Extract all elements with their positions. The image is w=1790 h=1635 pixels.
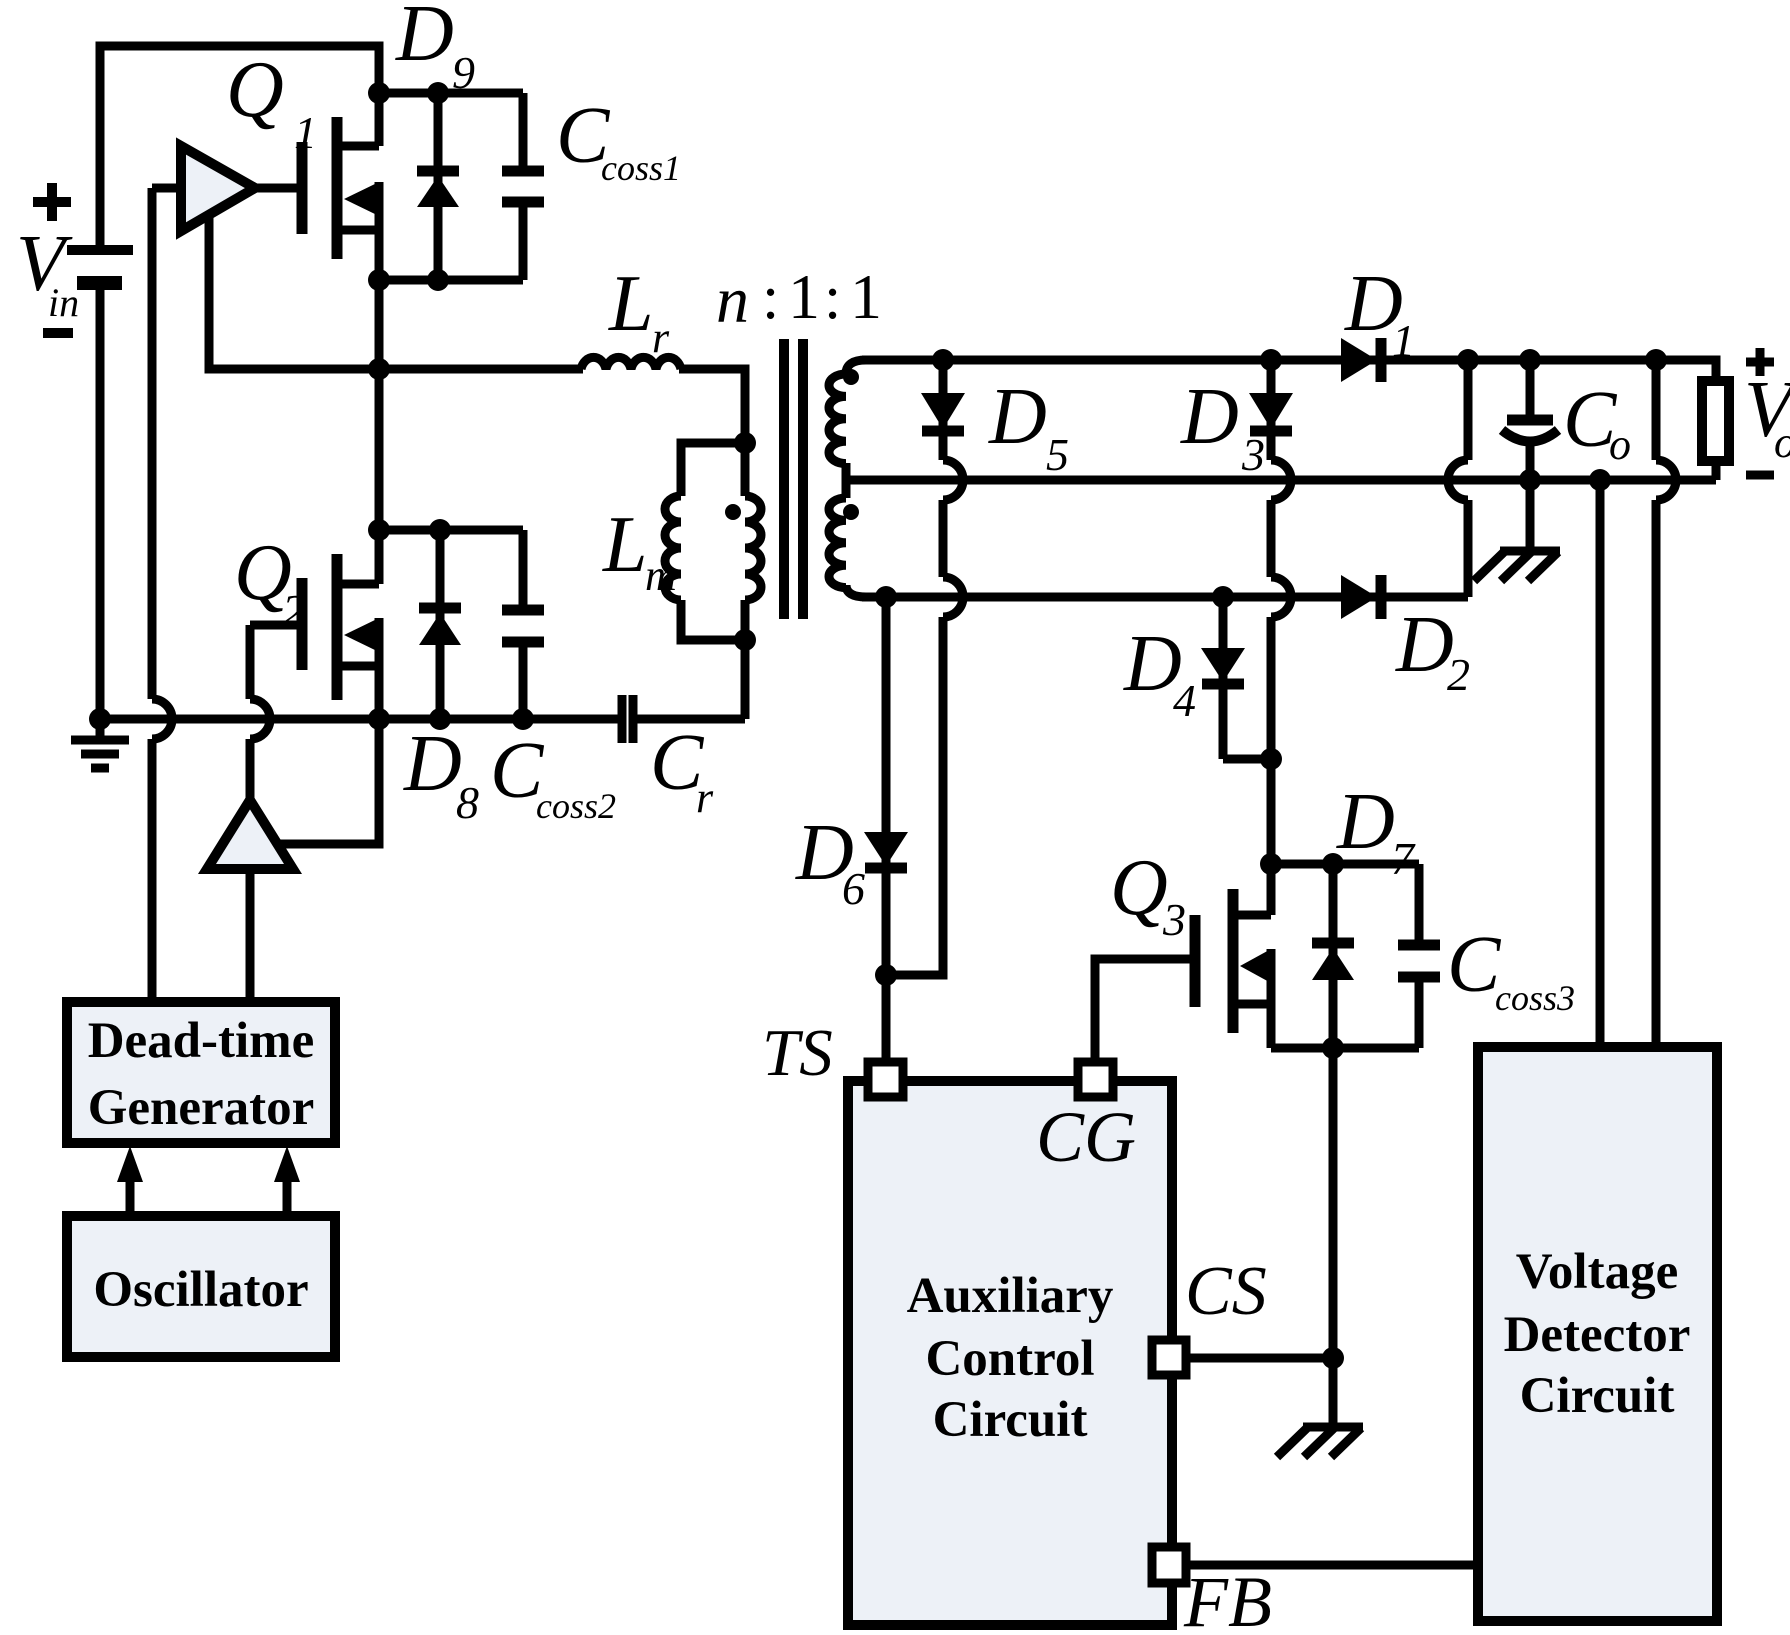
junction primary bottom node: [734, 629, 756, 651]
inductor Lm: [665, 496, 681, 600]
svg-text:L: L: [602, 501, 648, 589]
svg-text:Circuit: Circuit: [933, 1392, 1088, 1448]
wire rail3: [862, 593, 1468, 602]
svg-text:Q: Q: [1110, 844, 1168, 932]
junction rail1 D3 node: [1260, 349, 1282, 371]
diode D4: [1201, 597, 1271, 759]
label D6: [795, 809, 865, 914]
junction D9 bottom node: [427, 269, 449, 291]
label Lr: [608, 260, 670, 362]
svg-text:D: D: [1336, 778, 1395, 866]
transformer secondary winding 2: [829, 498, 866, 597]
svg-text:2: 2: [1447, 649, 1470, 700]
junction rail2 sense node: [1589, 469, 1611, 491]
label Vo plus: [1746, 348, 1774, 376]
svg-text:Auxiliary: Auxiliary: [907, 1268, 1114, 1324]
svg-text:Control: Control: [925, 1331, 1094, 1387]
wire Vin+ to Q1 drain: [100, 46, 379, 250]
junction rail1 D5 node: [932, 349, 954, 371]
wire Lm top branch: [681, 443, 745, 496]
wire D3 cathode down (hops rail2 and rail3): [1271, 460, 1291, 864]
wire rail1 output: [862, 360, 1716, 381]
wire Co ground stem: [1526, 480, 1535, 549]
transformer core: [784, 339, 803, 619]
buffer driver U2: [207, 800, 293, 869]
svg-text:FB: FB: [1183, 1562, 1272, 1635]
transformer primary winding: [745, 443, 761, 640]
label D8: [403, 720, 479, 828]
transformer secondary winding 1: [829, 360, 866, 498]
svg-text:Q: Q: [226, 46, 284, 134]
junction Q1 drain node: [368, 82, 390, 104]
resistor load Vo: [1702, 381, 1729, 480]
ground CS chassis: [1277, 1427, 1363, 1457]
wire rail1 sense to voltage detector (hops rail2): [1656, 360, 1676, 1047]
svg-text:Circuit: Circuit: [1520, 1368, 1675, 1424]
junction D4 cathode node: [1260, 748, 1282, 770]
capacitor Cr: [622, 695, 633, 743]
svg-text:r: r: [696, 773, 714, 822]
wire CS node to ground: [1329, 1358, 1338, 1425]
label Vo minus: [1746, 471, 1774, 480]
label Co: [1563, 376, 1631, 469]
label Q2: [234, 529, 305, 636]
label Coss1: [556, 92, 681, 188]
svg-text:D: D: [395, 0, 454, 78]
wire Q3 source to CS node: [1329, 1048, 1338, 1358]
svg-text:1: 1: [1392, 315, 1415, 366]
junction Q3 drain node: [1260, 853, 1282, 875]
svg-text:m: m: [645, 551, 677, 600]
junction switch node: [368, 358, 390, 380]
junction rail1 D2 node: [1457, 349, 1479, 371]
junction CS node: [1322, 1347, 1344, 1369]
svg-text:C: C: [1447, 921, 1502, 1009]
box Oscillator: [67, 1216, 335, 1357]
junction Q2 source rail node: [368, 708, 390, 730]
diode D9: [417, 93, 459, 280]
pin CG port: [1078, 1062, 1113, 1097]
wire D5 cathode down (hops rail2 and rail3): [886, 460, 963, 975]
wire driver U2 output to Q2 gate (hops ground rail): [250, 625, 270, 800]
svg-text:CG: CG: [1036, 1097, 1136, 1177]
label Vo: [1744, 366, 1790, 467]
svg-text:L: L: [608, 260, 654, 348]
svg-text:1: 1: [294, 107, 317, 158]
transistor Q2: [302, 530, 379, 719]
wire CS port to CS node: [1186, 1354, 1333, 1363]
svg-text:7: 7: [1391, 833, 1416, 884]
svg-text:8: 8: [456, 777, 479, 828]
wire D2 cathode to rail1 (hops rail2): [1448, 360, 1468, 597]
svg-text:3: 3: [1162, 894, 1186, 945]
svg-text:1: 1: [850, 261, 882, 332]
svg-text:6: 6: [842, 863, 865, 914]
svg-text::: :: [824, 264, 841, 332]
diode D6: [864, 597, 908, 975]
wire Q1 cell bottom: [379, 276, 523, 285]
wire FB port to voltage detector: [1186, 1561, 1478, 1570]
label turns ratio n:1:1: [716, 261, 882, 337]
ground rail wire: [100, 715, 618, 724]
label Coss3: [1447, 921, 1575, 1018]
wire Cr to primary: [637, 715, 745, 724]
wire driver U2 input to dead-time generator: [246, 869, 255, 1002]
transistor Q3: [1195, 864, 1271, 1048]
label Q1: [226, 46, 317, 158]
label D2: [1395, 601, 1470, 700]
node primary phase dot: [725, 504, 741, 520]
svg-text:D: D: [1395, 601, 1454, 689]
capacitor Coss2: [502, 530, 544, 719]
svg-text:Detector: Detector: [1504, 1307, 1691, 1363]
wire Q3 cell bottom: [1271, 1044, 1419, 1053]
box Auxiliary Control Circuit: [848, 1081, 1172, 1625]
wire rail2 sense to voltage detector: [1596, 480, 1605, 1047]
wire primary bottom to Cr rail: [741, 640, 750, 719]
wire Lr to transformer: [679, 369, 745, 443]
junction D7 bottom node: [1322, 1037, 1344, 1059]
box Dead-time Generator: [67, 1002, 335, 1143]
svg-text:coss2: coss2: [536, 786, 616, 826]
junction TS node: [875, 964, 897, 986]
svg-text:5: 5: [1046, 429, 1069, 480]
node secondary 1 phase dot: [843, 369, 859, 385]
junction rail2 Co node: [1519, 469, 1541, 491]
label Q3: [1110, 844, 1186, 945]
wire Q3 cell top: [1271, 860, 1419, 869]
node secondary 2 phase dot: [843, 504, 859, 520]
junction ground node: [89, 708, 111, 730]
arrow oscillator to dead-time generator left: [117, 1146, 143, 1216]
ground Co chassis: [1474, 551, 1560, 581]
pin CS port: [1152, 1340, 1186, 1375]
label D7: [1336, 778, 1416, 884]
diode D2: [1341, 575, 1381, 619]
junction D4 anode node: [1212, 586, 1234, 608]
diode D8: [419, 530, 461, 719]
label Coss2: [490, 727, 616, 826]
svg-text:D: D: [988, 373, 1047, 461]
svg-text:in: in: [48, 280, 79, 325]
capacitor Co: [1502, 360, 1558, 480]
svg-text:coss1: coss1: [601, 148, 681, 188]
svg-text:CS: CS: [1185, 1253, 1267, 1330]
buffer driver U1: [152, 146, 300, 231]
junction Q2 drain node: [368, 519, 390, 541]
svg-text:1: 1: [788, 261, 820, 332]
label D4: [1123, 620, 1196, 726]
svg-text:Oscillator: Oscillator: [93, 1262, 308, 1318]
svg-text:n: n: [716, 264, 749, 337]
svg-text:Voltage: Voltage: [1516, 1244, 1678, 1300]
wire TS node to TS port: [882, 975, 891, 1062]
label Cr: [650, 719, 714, 822]
svg-text:coss3: coss3: [1495, 978, 1575, 1018]
inductor Lr: [581, 357, 681, 369]
svg-text:TS: TS: [762, 1016, 833, 1090]
diode D1: [1341, 338, 1381, 382]
junction D8 top node: [429, 519, 451, 541]
junction rail1 Co node: [1519, 349, 1541, 371]
junction D9 top node: [427, 82, 449, 104]
junction D7 top node: [1322, 853, 1344, 875]
wire driver U1 input to dead-time generator (hops ground rail): [152, 188, 172, 1002]
junction D6 anode node: [875, 586, 897, 608]
wire center tap to rail2: [846, 476, 1716, 485]
junction rail1 sense node: [1645, 349, 1667, 371]
diode D5: [921, 360, 965, 460]
capacitor Coss3: [1398, 864, 1440, 1048]
svg-text:Generator: Generator: [88, 1080, 315, 1136]
wire Q3 gate to CG port: [1095, 959, 1191, 1062]
svg-text:3: 3: [1241, 429, 1265, 480]
svg-text::: :: [762, 264, 779, 332]
label D3: [1180, 373, 1265, 480]
svg-text:o: o: [1774, 418, 1790, 467]
svg-text:9: 9: [452, 47, 475, 98]
box Voltage Detector Circuit: [1478, 1047, 1717, 1621]
label D9: [395, 0, 475, 98]
wire driver U1 return to switch node: [209, 214, 379, 369]
svg-text:D: D: [403, 720, 462, 808]
junction Q1 source node: [368, 269, 390, 291]
wire Q1 cell top: [379, 89, 523, 98]
svg-text:Dead-time: Dead-time: [88, 1013, 315, 1069]
wire Q2 gate: [250, 621, 298, 630]
diode D3: [1249, 360, 1293, 460]
wire Q2 cell top: [379, 526, 523, 535]
label D5: [988, 373, 1069, 480]
label D1: [1344, 260, 1415, 366]
battery Vin: [67, 250, 133, 283]
label Vin plus: [33, 183, 71, 221]
capacitor Coss1: [502, 93, 544, 280]
wire switch node to Lr: [379, 365, 583, 374]
label Lm: [602, 501, 677, 600]
wire Vin- to ground rail: [96, 283, 105, 719]
junction Coss2 bottom node: [512, 708, 534, 730]
transistor Q1: [302, 93, 379, 280]
wire Lm bottom branch: [681, 600, 745, 640]
junction D8 bottom node: [429, 708, 451, 730]
pin FB port: [1152, 1547, 1186, 1583]
wire half-bridge midpoint: [375, 280, 384, 530]
wire Q2 source return to driver U2: [278, 719, 379, 844]
label Vin: [16, 220, 79, 325]
svg-text:4: 4: [1173, 675, 1196, 726]
svg-text:D: D: [1180, 373, 1239, 461]
pin TS port: [868, 1062, 903, 1097]
label Vin minus: [43, 328, 73, 338]
svg-text:r: r: [652, 313, 670, 362]
ground primary: [71, 719, 129, 768]
junction primary top node: [734, 432, 756, 454]
diode D7: [1312, 864, 1354, 1048]
arrow oscillator to dead-time generator right: [274, 1146, 300, 1216]
svg-text:o: o: [1609, 420, 1631, 469]
